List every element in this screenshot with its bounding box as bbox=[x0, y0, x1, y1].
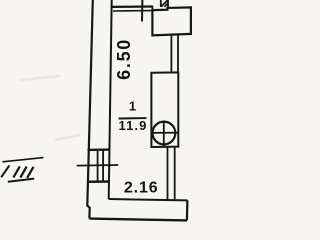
svg-text:1: 1 bbox=[129, 99, 136, 114]
svg-text:6.50: 6.50 bbox=[114, 38, 134, 80]
svg-text:2.16: 2.16 bbox=[124, 179, 159, 196]
svg-text:11.9: 11.9 bbox=[119, 118, 148, 133]
